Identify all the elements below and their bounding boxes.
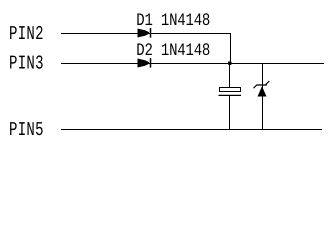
svg-text:D1 1N4148: D1 1N4148 xyxy=(136,11,210,31)
svg-text:PIN3: PIN3 xyxy=(9,53,44,75)
svg-text:PIN5: PIN5 xyxy=(9,119,44,141)
svg-text:D2 1N4148: D2 1N4148 xyxy=(136,41,210,61)
svg-text:PIN2: PIN2 xyxy=(9,24,44,46)
